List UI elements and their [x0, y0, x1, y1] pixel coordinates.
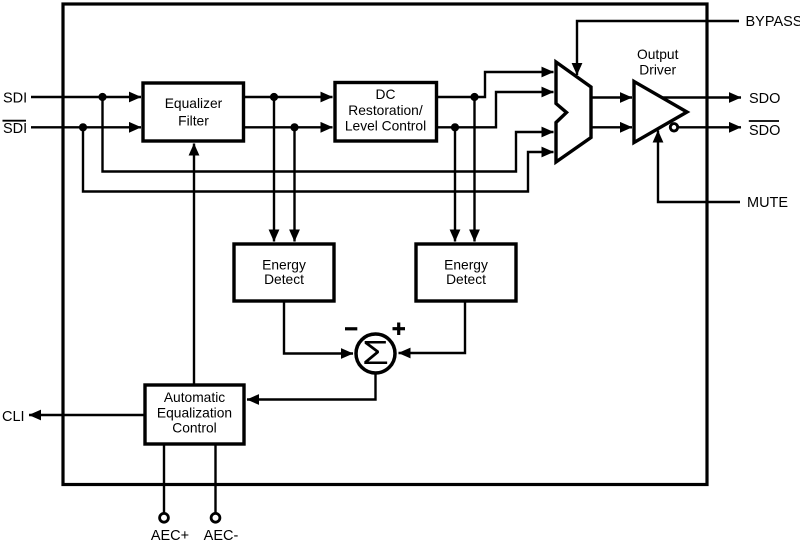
- svg-text:Equalizer: Equalizer: [165, 96, 223, 111]
- svg-text:Output: Output: [637, 47, 679, 62]
- svg-text:Level Control: Level Control: [345, 119, 426, 134]
- svg-text:BYPASS: BYPASS: [746, 14, 800, 30]
- svg-text:Filter: Filter: [178, 114, 209, 129]
- svg-text:SDI: SDI: [3, 121, 27, 137]
- svg-text:Automatic: Automatic: [164, 390, 225, 405]
- svg-text:Energy: Energy: [444, 257, 488, 272]
- svg-text:AEC-: AEC-: [204, 528, 239, 544]
- svg-text:SDO: SDO: [749, 123, 780, 139]
- svg-text:Equalization: Equalization: [157, 406, 232, 421]
- svg-text:DC: DC: [376, 87, 396, 102]
- svg-text:SDO: SDO: [749, 91, 780, 107]
- svg-text:Detect: Detect: [264, 272, 304, 287]
- svg-text:CLI: CLI: [2, 409, 25, 425]
- svg-text:Energy: Energy: [262, 257, 306, 272]
- svg-text:MUTE: MUTE: [747, 195, 788, 211]
- svg-text:AEC+: AEC+: [151, 528, 189, 544]
- svg-text:Restoration/: Restoration/: [348, 103, 423, 118]
- svg-text:Driver: Driver: [639, 63, 676, 78]
- svg-text:Detect: Detect: [446, 272, 486, 287]
- svg-text:Σ: Σ: [362, 335, 389, 372]
- svg-text:Control: Control: [172, 421, 216, 436]
- svg-text:SDI: SDI: [3, 91, 27, 107]
